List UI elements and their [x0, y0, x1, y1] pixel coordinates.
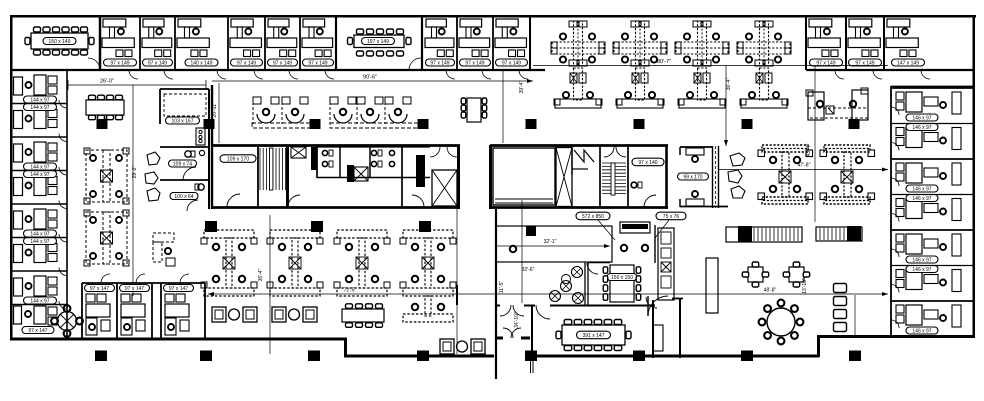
chair	[387, 51, 394, 56]
right office wall	[891, 123, 975, 125]
svg-text:146 x 97: 146 x 97	[912, 267, 931, 273]
column x423 row A	[418, 119, 429, 129]
right office module 2	[896, 128, 904, 136]
core2 bottom wall	[490, 206, 668, 209]
chair	[53, 27, 60, 32]
chair	[461, 112, 466, 118]
office wall	[805, 16, 807, 70]
chair	[387, 29, 394, 34]
left office wall	[11, 136, 67, 138]
conference room B door arc	[409, 58, 421, 70]
core1 restroom toilets	[322, 150, 327, 155]
chair	[357, 51, 364, 56]
restroom1 basin	[199, 150, 204, 155]
core1 wall v3	[369, 147, 371, 178]
chair	[636, 267, 641, 274]
core2 top wall	[490, 144, 668, 147]
break table	[610, 265, 634, 302]
right column top wall	[891, 86, 975, 88]
big conf right wall	[652, 300, 654, 358]
chair	[62, 50, 69, 55]
chair	[603, 294, 608, 301]
break stool 2	[561, 281, 572, 292]
core1 wall v2	[339, 147, 341, 178]
chair	[604, 320, 612, 325]
svg-text:146 x 97: 146 x 97	[912, 257, 931, 263]
wall x680 lower	[679, 298, 681, 358]
storage shelving dashed	[164, 94, 206, 116]
core2 door arc b	[644, 195, 656, 207]
svg-text:75 x 76: 75 x 76	[663, 214, 680, 220]
svg-text:144 x 97: 144 x 97	[30, 105, 49, 111]
top office at x=100	[103, 19, 126, 27]
left office module 5	[14, 211, 23, 229]
left office module 2	[14, 111, 23, 129]
chair	[778, 338, 785, 345]
chair	[797, 319, 804, 326]
column x639 row A	[634, 119, 645, 129]
chair	[793, 282, 800, 287]
chair	[376, 323, 383, 328]
chair	[76, 318, 83, 325]
core2 shaft	[556, 148, 572, 207]
bottom office at x=117	[121, 294, 130, 302]
column x211 row B	[205, 221, 217, 232]
column x531 row C	[525, 351, 537, 362]
svg-text:150 x 150: 150 x 150	[611, 275, 633, 281]
right office module 7	[896, 305, 904, 313]
vestibule lower lines	[530, 361, 532, 373]
conference room A door arc	[88, 58, 100, 70]
svg-text:80'-7": 80'-7"	[657, 59, 671, 65]
chair	[397, 29, 404, 34]
storage label	[166, 117, 200, 124]
core2 toilet	[631, 182, 637, 188]
core1 elevator	[432, 170, 457, 206]
chair	[376, 304, 383, 309]
kitchen left wall	[495, 209, 497, 379]
round table A	[58, 312, 77, 331]
chair	[742, 272, 749, 277]
core1 wall v1	[316, 145, 318, 178]
chair	[356, 323, 363, 328]
core1 door arc b1	[288, 195, 300, 207]
chair	[803, 272, 810, 277]
interview room label	[678, 173, 709, 180]
column x855 row C	[849, 351, 861, 362]
restroom door arc	[183, 167, 196, 180]
core2 room shelf	[495, 198, 553, 200]
office wall	[529, 16, 531, 70]
chair	[53, 50, 60, 55]
svg-text:97 x 149: 97 x 149	[465, 60, 484, 66]
chair	[574, 346, 582, 351]
storage room walls	[160, 88, 209, 90]
top-right office at x=806	[809, 19, 832, 27]
bottom office wall	[116, 283, 118, 338]
pill leader 572	[598, 220, 615, 240]
chair	[43, 27, 50, 32]
svg-text:97 x 149: 97 x 149	[110, 60, 129, 66]
grid line x457	[456, 209, 458, 354]
wall bottom mid-right	[531, 355, 819, 358]
chair	[604, 346, 612, 351]
right office wall	[891, 300, 975, 302]
entry jamb right	[521, 337, 530, 340]
right office wall	[891, 158, 975, 160]
table 6v	[467, 98, 481, 122]
right office wall	[891, 265, 975, 267]
core1 shaft xbox	[291, 147, 306, 158]
corridor wall stub	[456, 285, 458, 305]
interview room top wall	[680, 146, 712, 148]
right office wall	[891, 229, 975, 231]
chair	[89, 115, 96, 120]
chair	[98, 115, 105, 120]
svg-text:144 x 97: 144 x 97	[30, 97, 49, 103]
core1 wall h	[317, 177, 430, 179]
plant r3	[731, 186, 745, 198]
bottom office wall	[160, 283, 162, 338]
chair end	[406, 38, 411, 45]
chair	[357, 29, 364, 34]
dimension line 26ft	[68, 84, 206, 86]
reception desk	[808, 92, 824, 120]
svg-text:97 x 147: 97 x 147	[90, 286, 109, 292]
bottom office door arc	[136, 274, 145, 283]
conference table A	[31, 33, 88, 49]
vestibule right wall	[531, 305, 533, 357]
cluster fan B baseline	[330, 123, 422, 128]
wall bottom left	[10, 338, 346, 341]
conference room B wall	[421, 16, 423, 70]
chair	[397, 51, 404, 56]
cubicle cluster top row2 4	[760, 68, 769, 100]
chair	[603, 276, 608, 283]
chair	[764, 332, 771, 339]
wall y298 stub	[672, 298, 683, 300]
left column right wall	[66, 70, 68, 338]
cluster fan B st2	[357, 97, 365, 104]
interview room double wall	[712, 146, 714, 208]
pill leader 75	[655, 220, 669, 238]
chair	[594, 320, 602, 325]
chair	[482, 112, 487, 118]
grid line vertical x133	[132, 85, 134, 296]
cubicle cluster top row1 4	[760, 21, 769, 66]
restroom2 label	[170, 193, 198, 200]
svg-text:29'-2": 29'-2"	[132, 165, 138, 178]
door arc 657	[646, 297, 657, 308]
svg-text:99 x 170: 99 x 170	[683, 174, 702, 180]
cubicle pod B	[86, 212, 127, 264]
right office module 6	[896, 270, 904, 278]
svg-text:32'-6": 32'-6"	[522, 267, 535, 273]
wall outer left	[10, 15, 13, 340]
break room wall	[584, 262, 586, 305]
office wall	[299, 16, 301, 70]
dimension line 47ft	[719, 169, 888, 171]
chair	[34, 50, 41, 55]
label 572x850	[576, 212, 610, 220]
training chair	[510, 246, 516, 252]
chair	[614, 346, 622, 351]
table 8h	[342, 309, 384, 322]
core1 stair wall	[286, 145, 289, 207]
T cluster right B	[824, 145, 870, 152]
lounge chairs	[834, 284, 847, 293]
grid line x726	[725, 66, 727, 146]
grid line x522	[521, 200, 523, 303]
core1 stair	[259, 148, 261, 190]
chair	[366, 323, 373, 328]
core1 left wall	[211, 85, 213, 209]
svg-text:97 x 140: 97 x 140	[638, 160, 657, 166]
svg-text:144 x 97: 144 x 97	[30, 298, 49, 304]
pin-up desk	[620, 222, 650, 233]
bottom office door arc	[101, 274, 110, 283]
bottom office wall	[81, 283, 83, 338]
chair	[377, 29, 384, 34]
training room black cabinet	[526, 226, 536, 236]
svg-text:100 x 64: 100 x 64	[174, 194, 193, 200]
cluster fan A st1	[253, 97, 261, 104]
conference room A wall	[99, 16, 102, 70]
left office wall	[11, 304, 67, 306]
conference table A label	[43, 38, 76, 45]
entry doors	[503, 328, 513, 338]
column x314 row C	[308, 351, 320, 362]
chair	[594, 346, 602, 351]
core1 poche2	[347, 165, 354, 182]
cabinet A hatch	[753, 228, 755, 241]
break wall right	[654, 225, 656, 263]
column x747 row C	[741, 351, 753, 362]
svg-text:150 x 149: 150 x 149	[49, 39, 71, 45]
right office module 3	[896, 163, 904, 171]
svg-text:103 x 167: 103 x 167	[172, 118, 194, 124]
core2 big room	[493, 148, 555, 205]
core2 stair	[602, 162, 626, 164]
chair	[482, 98, 487, 104]
break room wall top	[588, 262, 610, 264]
top office at x=300	[303, 19, 325, 27]
svg-text:47'-8": 47'-8"	[798, 163, 811, 169]
left office wall	[11, 103, 67, 105]
svg-text:32'-1": 32'-1"	[544, 239, 557, 245]
core1 poche	[311, 147, 317, 170]
office wall	[456, 16, 458, 70]
svg-text:197 x 149: 197 x 149	[367, 39, 389, 45]
chair	[64, 330, 71, 337]
svg-text:97 x 147: 97 x 147	[125, 286, 144, 292]
restroom1 label	[169, 160, 197, 167]
office wall	[99, 16, 101, 70]
chair	[72, 27, 79, 32]
restroom wall2	[160, 179, 209, 181]
chair	[752, 262, 759, 267]
plant	[147, 152, 160, 165]
copier	[196, 128, 205, 145]
left office wall	[11, 270, 67, 272]
bottom office wall	[204, 283, 206, 338]
svg-text:39'-4": 39'-4"	[519, 80, 525, 93]
chair	[564, 346, 572, 351]
top offices end wall	[529, 16, 531, 70]
chair	[584, 346, 592, 351]
left office module 6	[14, 245, 23, 263]
chair	[636, 294, 641, 301]
core2 stair wall	[599, 145, 601, 207]
top office at x=228	[231, 19, 253, 27]
break stool 4	[573, 293, 584, 304]
I cluster 2	[270, 230, 320, 238]
svg-text:144 x 97: 144 x 97	[30, 172, 49, 178]
plant r1	[730, 153, 745, 166]
svg-text:97 x 149: 97 x 149	[273, 60, 292, 66]
break stool 1	[572, 267, 583, 278]
top office at x=423	[426, 19, 446, 27]
svg-text:146 x 97: 146 x 97	[912, 328, 931, 334]
chair	[603, 267, 608, 274]
chair	[367, 51, 374, 56]
chair	[377, 51, 384, 56]
break table label	[607, 274, 637, 281]
core2 right wall	[665, 145, 668, 209]
storage trio 2	[272, 307, 286, 322]
bottom office wall	[151, 283, 153, 338]
svg-text:109 x 170: 109 x 170	[227, 156, 249, 162]
chair	[791, 305, 798, 312]
cluster fan A baseline	[252, 123, 312, 128]
core2 wall v	[627, 145, 629, 207]
chair	[764, 305, 771, 312]
top-right office at x=846	[849, 19, 872, 27]
svg-text:72'-5": 72'-5"	[344, 288, 357, 294]
top-right office at x=884	[887, 19, 910, 27]
chair	[793, 262, 800, 267]
bottom office label	[120, 285, 150, 292]
galley counter	[658, 228, 674, 300]
office wall	[492, 16, 494, 70]
left office module 3	[14, 144, 23, 162]
svg-text:36'-4": 36'-4"	[258, 268, 264, 281]
grid line x270	[269, 215, 271, 354]
left bottom label	[22, 327, 54, 334]
svg-text:97 x 149: 97 x 149	[237, 60, 256, 66]
right office module 5	[896, 234, 904, 242]
svg-text:11'-5": 11'-5"	[499, 281, 505, 294]
svg-text:36'-4": 36'-4"	[726, 77, 732, 90]
core1 top wall	[212, 144, 460, 147]
core2 zig wall	[571, 145, 573, 175]
reception L-desk	[153, 233, 174, 242]
label 75x76	[656, 212, 686, 220]
restroom1 toilet	[185, 151, 191, 157]
chair	[34, 27, 41, 32]
left bottom desk	[14, 306, 22, 324]
dimension line 32'1	[497, 245, 610, 247]
break room door arc	[587, 263, 598, 274]
left office module 1	[14, 77, 23, 95]
storage trio 1	[212, 307, 226, 322]
core1 wall v4	[401, 145, 403, 207]
tall cabinet	[706, 258, 718, 313]
square table B	[789, 267, 804, 282]
chair	[752, 282, 759, 287]
I cluster 4 tall	[403, 230, 453, 238]
cluster fan B st1	[330, 97, 338, 104]
vestibule black column	[527, 352, 537, 361]
bottom office door arc	[180, 274, 189, 283]
core1 wall stair-left	[257, 145, 259, 207]
svg-text:97 x 149: 97 x 149	[502, 60, 521, 66]
grid line x815	[814, 66, 816, 222]
left office wall	[11, 170, 67, 172]
dimension ext line x503	[502, 70, 504, 143]
wall bottom right	[817, 335, 975, 338]
wall under top-right offices	[806, 69, 974, 71]
column x854 row A	[849, 119, 860, 129]
chair	[366, 304, 373, 309]
svg-text:146 x 97: 146 x 97	[912, 186, 931, 192]
column x639 row C	[633, 351, 645, 362]
break stool 3	[550, 291, 561, 302]
office wall	[227, 16, 229, 70]
wall bottom jog	[344, 338, 347, 356]
I cluster 3	[337, 230, 387, 238]
cubicle cluster top row1 3	[698, 21, 707, 66]
core2 door arcs top	[604, 147, 614, 157]
wall outer right	[972, 15, 975, 337]
cubicle cluster top row1 1	[574, 21, 583, 66]
svg-text:34'-10": 34'-10"	[514, 312, 520, 328]
svg-text:391 x 147: 391 x 147	[583, 333, 605, 339]
top office at x=140	[143, 19, 164, 27]
svg-text:146 x 97: 146 x 97	[912, 125, 931, 131]
chair	[783, 272, 790, 277]
column x102 row A	[97, 119, 108, 129]
chair	[64, 305, 71, 312]
plant r2	[728, 170, 742, 183]
chair	[62, 27, 69, 32]
column x423 row C	[417, 351, 429, 362]
core1 restroom3 toilets	[389, 150, 394, 155]
core1 door arc b2	[412, 195, 424, 207]
door arc SW	[648, 296, 668, 316]
svg-text:97 x 147: 97 x 147	[28, 328, 47, 334]
chair	[98, 95, 105, 100]
entry jamb left	[496, 337, 503, 340]
big conf table	[562, 325, 625, 345]
column x531 row A	[526, 119, 537, 129]
office wall	[883, 16, 885, 70]
svg-text:48'-8": 48'-8"	[764, 288, 777, 294]
galley cabinet low	[653, 325, 663, 351]
chair	[614, 320, 622, 325]
top office at x=265	[268, 19, 289, 27]
svg-text:144 x 97: 144 x 97	[30, 164, 49, 170]
entry inner doors	[500, 305, 511, 316]
left office module 4	[14, 178, 23, 196]
office wall	[335, 16, 337, 70]
cluster fan B st3	[385, 97, 393, 104]
wall under top offices	[11, 69, 545, 71]
round table B	[767, 308, 795, 336]
svg-text:146 x 97: 146 x 97	[912, 115, 931, 121]
chair	[574, 320, 582, 325]
T cluster right A	[762, 145, 808, 152]
